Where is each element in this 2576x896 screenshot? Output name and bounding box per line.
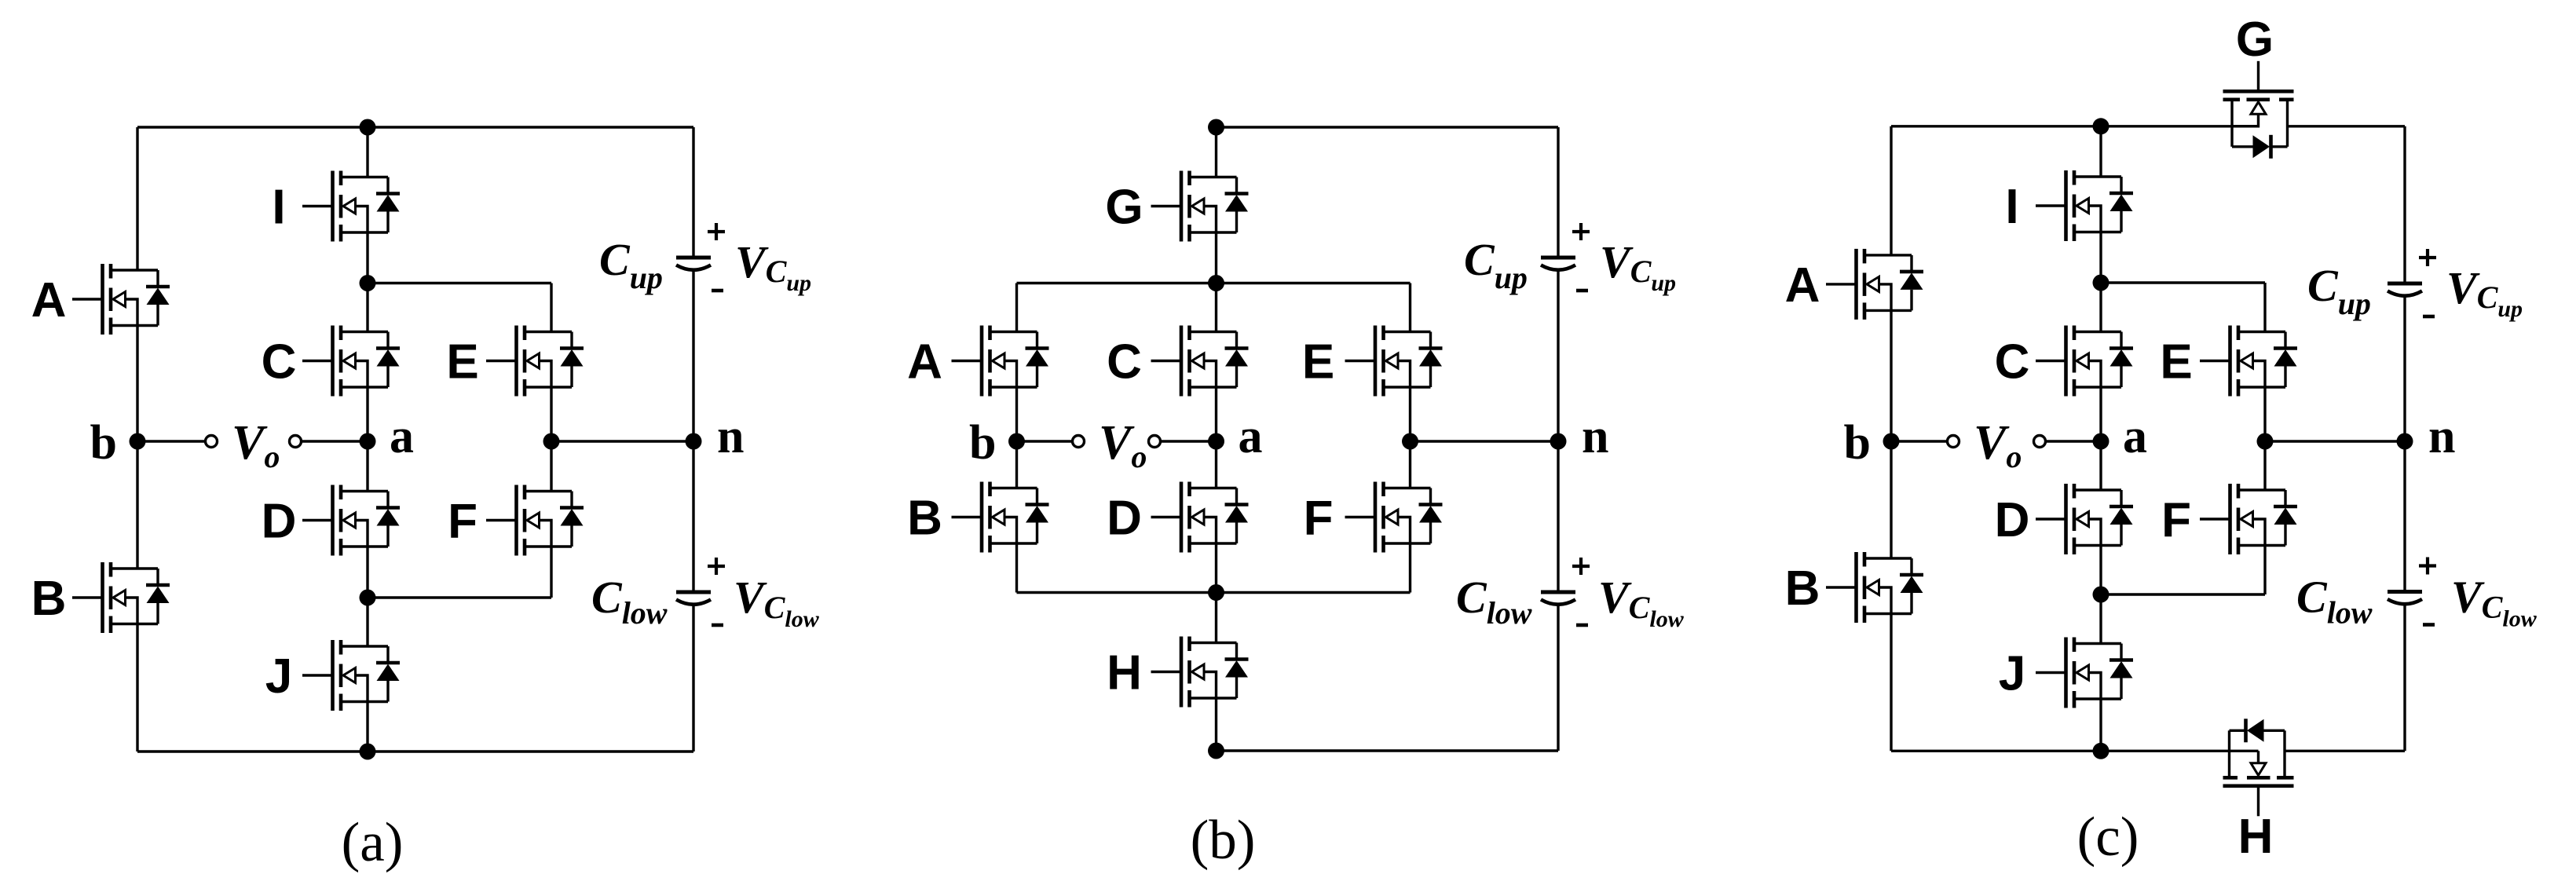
wire junction1 jumper right [1217,282,1411,284]
terminal Vo right (c) [2034,436,2046,448]
wire bottom rail (b) [1217,749,1559,752]
svg-text:n: n [1582,410,1608,463]
wire junction1 to C drain (c) [2099,283,2102,332]
transistor B (c) [1826,552,1923,623]
wire B source to junction2 (b) [1015,543,1018,593]
capacitor Cup (c) [2388,249,2436,316]
wire EF top down to E drain (b) [1409,283,1411,332]
svg-text:G: G [2236,13,2274,67]
wire node b to B drain (b) [1015,441,1018,488]
svg-text:b: b [1844,416,1871,470]
wire EF bottom to junction2 [368,596,551,598]
wire node n to Clow (b) [1557,441,1559,591]
transistor I [302,171,400,242]
wire node b to output terminal (c) [1891,440,1948,442]
svg-text:D: D [1995,493,2030,547]
wire node n to Clow [692,441,694,591]
wire top to I drain (c) [2099,126,2102,177]
wire node b to B drain (c) [1890,441,1892,558]
wire node b to B drain [136,441,138,569]
terminal Vo right (b) [1149,436,1161,448]
svg-text:B: B [907,492,942,546]
junction 1 (a) [360,275,376,291]
junction EF mid (b) [1402,433,1418,450]
transistor F [486,485,584,556]
svg-text:n: n [717,410,744,463]
wire EF top down to E drain (c) [2263,283,2266,332]
transistor A (c) [1826,249,1923,320]
svg-text:E: E [1302,335,1334,389]
wire E source to F drain [550,387,552,492]
wire left rail upper (a) [136,127,138,270]
junction 1 (c) [2093,275,2109,291]
transistor C (b) [1151,326,1249,397]
transistor J [302,640,400,711]
svg-text:b: b [90,416,117,470]
transistor C (c) [2036,326,2133,397]
node b (a) [130,433,146,450]
junction bottom node (b) [1208,743,1224,759]
wire F source to EF bottom (b) [1409,543,1411,593]
svg-text:a: a [2123,410,2147,463]
wire junction2 to J drain (c) [2099,594,2102,644]
junction bottom node (a) [360,744,376,760]
svg-text:F: F [1304,492,1334,546]
wire J source to bottom [366,702,368,752]
svg-text:(c): (c) [2077,806,2139,868]
wire junction1 to C drain (b) [1215,283,1217,332]
svg-text:(a): (a) [342,812,404,873]
junction 1 (b) [1208,275,1224,291]
wire Clow to bottom rail (a) [692,605,694,752]
wire right rail top (a) [692,127,694,256]
capacitor Cup (b) [1541,223,1590,291]
terminal Vo left (b) [1073,436,1085,448]
wire J source to bottom (c) [2099,699,2102,751]
wire C source to node a [366,387,368,441]
node a (a) [360,433,376,450]
wire EF mid to node n (c) [2265,440,2405,442]
terminal Vo left (c) [1948,436,1959,448]
wire B source to bottom rail [136,624,138,752]
wire D source to junction2 (c) [2099,546,2102,595]
svg-text:n: n [2428,410,2455,463]
wire B source to bottom rail (c) [1890,614,1892,752]
wire D source to junction 2 [366,547,368,598]
wire top rail (a) [137,126,693,128]
node b (c) [1883,433,1900,450]
wire junction1 to EF top [368,282,551,284]
node a (c) [2093,433,2109,450]
svg-text:D: D [1107,492,1142,546]
junction 2 (a) [360,590,376,606]
svg-text:b: b [969,416,996,470]
wire I source to junction 1 [366,232,368,283]
junction 2 (c) [2093,587,2109,603]
wire node a to D drain [366,441,368,492]
wire Clow to bottom rail (b) [1557,605,1559,751]
junction EF mid (c) [2257,433,2274,450]
svg-text:I: I [272,181,285,235]
circuit (c) [1785,13,2538,868]
wire junction1 jumper left [1017,282,1217,284]
capacitor Clow (c) [2388,558,2436,625]
wire Clow to bottom rail (c) [2403,605,2406,752]
svg-text:G: G [1105,181,1143,235]
node b (b) [1008,433,1025,450]
wire A source to node b (c) [1890,310,1892,441]
wire junction2 jumper left [1017,591,1217,594]
wire D source to junction2 (b) [1215,543,1217,593]
svg-text:I: I [2005,180,2018,234]
svg-text:E: E [2160,335,2192,389]
wire output terminal to node a [302,440,368,442]
wire bottom rail to H (c) [2101,750,2259,752]
wire Cup to node n [692,270,694,441]
capacitor Cup (a) [676,223,725,291]
svg-text:J: J [1999,647,2025,701]
svg-text:E: E [446,335,478,389]
transistor F (b) [1345,482,1443,553]
wire H source to bottom (b) [1215,698,1217,751]
wire top rail (b) [1217,126,1559,128]
svg-text:A: A [1785,258,1820,313]
node a (b) [1208,433,1224,450]
transistor E [486,326,584,397]
wire A source to node b [136,326,138,442]
wire F source to EF bottom [550,547,552,598]
svg-text:(b): (b) [1191,810,1256,871]
junction bottom node (c) [2093,743,2109,759]
transistor G (c) [2223,61,2294,159]
svg-text:C: C [1107,335,1142,389]
capacitor Clow (a) [676,558,725,625]
transistor J (c) [2036,638,2133,708]
wire left rail upper (c) [1890,126,1892,255]
svg-text:B: B [1785,561,1820,616]
circuit (a) [31,119,820,874]
wire junction2 jumper right [1217,591,1411,594]
wire E source to F drain (b) [1409,387,1411,488]
wire output terminal to node a (c) [2046,440,2102,442]
wire bottom rail (a) [137,750,693,752]
wire junction1 to C drain [366,283,368,332]
wire node n to Clow (c) [2403,441,2406,590]
transistor H (b) [1151,637,1249,708]
svg-text:D: D [262,495,297,549]
transistor D [302,485,400,556]
wire Cup to node n (b) [1557,270,1559,441]
wire EF bottom to junction2 (c) [2101,593,2265,595]
wire node b to output terminal [137,440,206,442]
wire C source to node a (c) [2099,387,2102,441]
node n (a) [686,433,702,450]
transistor H (c) [2223,719,2294,816]
circuit (b) [907,119,1685,872]
transistor D (c) [2036,484,2133,554]
transistor C [302,326,400,397]
junction top node (a) [360,119,376,136]
terminal Vo right (a) [290,436,302,448]
svg-text:a: a [390,410,414,463]
junction 2 (b) [1208,584,1224,601]
wire junction2 to H drain (b) [1215,593,1217,643]
svg-text:A: A [907,335,942,389]
node n (c) [2397,433,2413,450]
wire G drain to top right corner (c) [2288,125,2406,127]
junction top node (c) [2093,118,2109,134]
svg-text:a: a [1239,410,1263,463]
terminal Vo left (a) [206,436,218,448]
transistor F (c) [2200,484,2297,554]
transistor E (b) [1345,326,1443,397]
wire EF mid to node n [551,440,693,442]
junction EF mid (a) [543,433,560,450]
wire A source to node b (b) [1015,387,1018,441]
wire top rail to G (c) [2101,125,2259,127]
svg-text:H: H [2238,810,2274,864]
wire Cup to node n (c) [2403,296,2406,441]
svg-text:J: J [265,649,292,704]
wire EF mid to node n (b) [1411,440,1559,442]
capacitor Clow (b) [1541,558,1590,625]
wire left branch down to A [1015,283,1018,332]
transistor E (c) [2200,326,2297,397]
wire right rail top (b) [1557,127,1559,256]
svg-text:C: C [1995,335,2030,389]
wire junction1 to EF top (c) [2101,281,2265,283]
wire node a to D drain (c) [2099,441,2102,490]
transistor D (b) [1151,482,1249,553]
wire I source to junction1 (c) [2099,232,2102,283]
wire bottom rail left (c) [1891,750,2101,752]
transistor A (b) [952,326,1049,397]
wire node b to output terminal (b) [1017,440,1073,442]
svg-text:H: H [1107,646,1142,700]
transistor I (c) [2036,170,2133,241]
wire C source to node a (b) [1215,387,1217,441]
wire right rail top (c) [2403,126,2406,282]
node n (b) [1550,433,1567,450]
wire node a to D drain (b) [1215,441,1217,488]
wire top rail left (c) [1891,125,2101,127]
svg-text:F: F [2161,493,2191,547]
wire junction2 to J drain [366,598,368,646]
transistor G (b) [1151,171,1249,242]
wire top to G drain [1215,127,1217,177]
wire H source to bottom right corner (c) [2285,750,2405,752]
wire G source to junction1 [1215,232,1217,283]
transistor A [72,264,170,335]
wire top to I drain [366,127,368,177]
svg-text:F: F [448,495,478,549]
transistor B (b) [952,482,1049,553]
wire E source to F drain (c) [2263,387,2266,490]
svg-text:B: B [31,572,67,626]
svg-text:C: C [262,335,297,389]
wire F source to EF bottom (c) [2263,546,2266,595]
wire output terminal to node a (b) [1161,440,1217,442]
svg-text:A: A [31,273,67,327]
transistor B [72,562,170,633]
junction top node (b) [1208,119,1224,136]
wire EF top down to E drain [550,283,552,332]
